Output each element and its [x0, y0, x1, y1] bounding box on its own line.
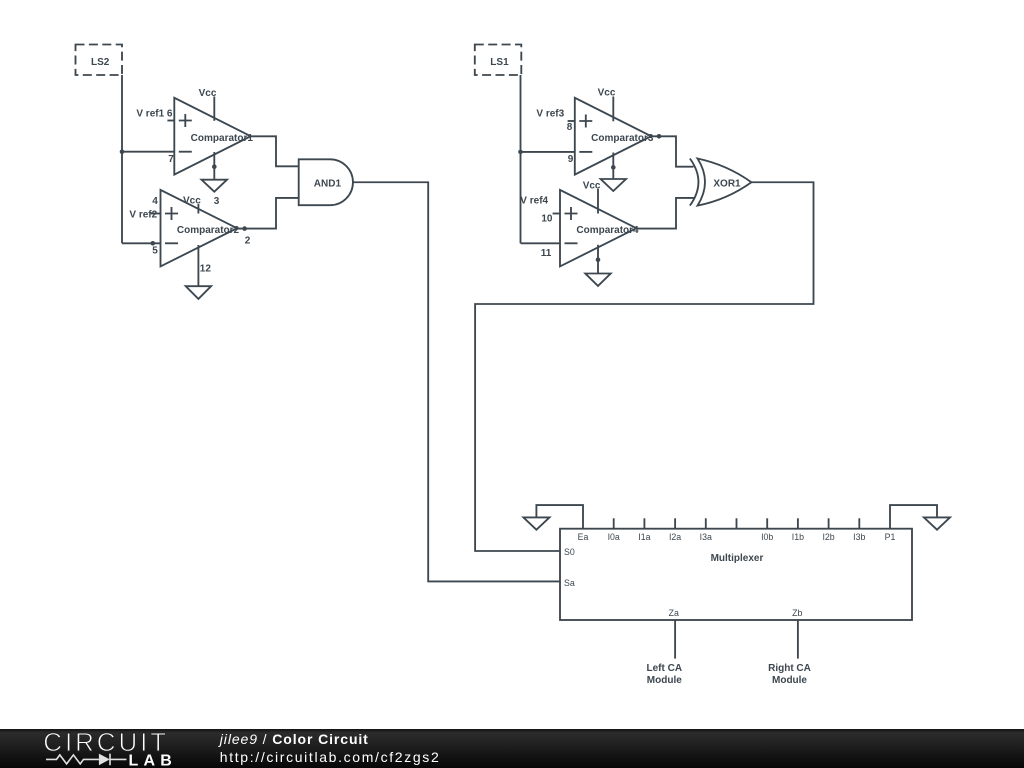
- pin stub I1a: [643, 518, 645, 528]
- ground below Comparator4: [585, 274, 610, 286]
- minus sign: [179, 151, 192, 153]
- pin stub I2a: [674, 518, 676, 528]
- svg-text:jilee9 / Color Circuit: jilee9 / Color Circuit: [218, 731, 369, 747]
- svg-text:P1: P1: [885, 532, 896, 542]
- pin stub I1b: [797, 518, 799, 528]
- wire to Comparator4 minus: [521, 242, 561, 244]
- node junction on LS2 bus: [120, 149, 125, 154]
- plus sign: [579, 115, 592, 128]
- negative supply stem Comparator4: [597, 245, 599, 274]
- ground below Comparator3: [601, 179, 626, 191]
- svg-text:Vcc: Vcc: [583, 180, 601, 191]
- node on Comparator2 output / net 2: [242, 226, 247, 231]
- module box LS2: [76, 45, 123, 76]
- Vcc supply stem Comparator4: [597, 189, 599, 214]
- pin stub I0a: [613, 518, 615, 528]
- Vcc supply stem Comparator3: [612, 97, 614, 122]
- negative supply stem Comparator1: [213, 152, 215, 180]
- svg-text:5: 5: [152, 245, 158, 256]
- svg-text:I2b: I2b: [822, 532, 834, 542]
- svg-text:Ea: Ea: [578, 532, 589, 542]
- svg-text:Comparator1: Comparator1: [191, 133, 254, 144]
- wire Comparator4 output to XOR1 bottom input: [636, 198, 695, 229]
- wire Za to Left CA Module: [674, 620, 676, 659]
- module box LS1: [475, 45, 522, 76]
- wire XOR1 output to Multiplexer S0: [475, 182, 813, 551]
- svg-text:8: 8: [567, 122, 573, 133]
- svg-text:Comparator2: Comparator2: [177, 225, 240, 236]
- svg-text:V ref1 6: V ref1 6: [136, 109, 173, 120]
- svg-text:V ref3: V ref3: [536, 108, 564, 119]
- svg-text:Comparator4: Comparator4: [576, 225, 639, 236]
- label Left CA Module: [647, 663, 683, 686]
- wire P1 to ground: [890, 505, 937, 529]
- svg-text:Left CA: Left CA: [647, 663, 683, 674]
- pin stub I3b: [858, 518, 860, 528]
- plus sign: [565, 207, 578, 220]
- svg-text:I0a: I0a: [608, 532, 620, 542]
- negative supply stem Comparator2: [197, 245, 199, 286]
- wire to Comparator3 minus: [521, 151, 575, 153]
- node on Comparator3 output: [657, 134, 662, 139]
- pin stub I0b: [766, 518, 768, 528]
- ground at Ea: [523, 517, 549, 529]
- wire Comparator3 output to XOR1 top input: [651, 136, 693, 166]
- svg-text:4: 4: [152, 196, 158, 207]
- ground below Comparator1: [202, 180, 228, 192]
- svg-text:LAB: LAB: [129, 752, 177, 768]
- svg-text:I3a: I3a: [700, 532, 712, 542]
- svg-text:XOR1: XOR1: [713, 178, 741, 189]
- pin stub I3a: [705, 518, 707, 528]
- svg-text:LS2: LS2: [91, 57, 110, 68]
- plus sign: [179, 114, 192, 127]
- op-amp U1 Comparator1: [167, 88, 253, 180]
- svg-text:I1a: I1a: [638, 532, 650, 542]
- svg-text:10: 10: [541, 213, 553, 224]
- minus sign: [579, 151, 592, 153]
- svg-text:3: 3: [214, 196, 220, 207]
- svg-text:Vcc: Vcc: [199, 88, 217, 99]
- wire to Comparator2 minus: [122, 242, 161, 244]
- svg-text:12: 12: [200, 263, 212, 274]
- svg-text:Comparator3: Comparator3: [591, 133, 654, 144]
- Vcc supply stem Comparator2: [197, 204, 199, 214]
- wire to Comparator1 minus: [122, 151, 174, 153]
- wire Comparator1 output to AND1 top input: [251, 136, 299, 166]
- minus sign: [565, 242, 578, 244]
- svg-text:Module: Module: [772, 675, 807, 686]
- svg-text:I1b: I1b: [792, 532, 804, 542]
- op-amp U3 Comparator3: [568, 87, 654, 179]
- plus input stub pin 8: [568, 120, 575, 122]
- Vcc supply stem Comparator1: [213, 97, 215, 121]
- plus sign: [165, 207, 178, 220]
- svg-text:11: 11: [541, 248, 552, 259]
- label Right CA Module: [768, 663, 811, 686]
- svg-text:V ref4: V ref4: [520, 196, 548, 207]
- svg-text:LS1: LS1: [490, 57, 509, 68]
- svg-text:Sa: Sa: [564, 578, 575, 588]
- wire Zb to Right CA Module: [797, 620, 799, 659]
- svg-text:7: 7: [168, 154, 174, 165]
- svg-text:I3b: I3b: [853, 532, 865, 542]
- op-amp U2 Comparator2: [151, 190, 240, 286]
- node on Comparator2 minus wire: [151, 241, 156, 246]
- svg-text:S0: S0: [564, 547, 575, 557]
- op-amp U4 Comparator4: [553, 180, 639, 273]
- node junction on LS1 bus: [518, 150, 523, 155]
- wire Ea to ground: [536, 505, 583, 529]
- AND gate AND1: [299, 159, 353, 205]
- svg-text:Vcc: Vcc: [598, 87, 616, 98]
- wire AND1 output to Multiplexer Sa: [353, 182, 560, 581]
- XOR gate XOR1: [690, 159, 752, 206]
- svg-text:Module: Module: [647, 675, 682, 686]
- plus input stub pin 10: [553, 213, 560, 215]
- svg-text:Right CA: Right CA: [768, 663, 811, 674]
- svg-text:I2a: I2a: [669, 532, 681, 542]
- svg-text:9: 9: [568, 154, 574, 165]
- wire LS2 vertical bus: [121, 75, 123, 243]
- multiplexer U5 body: [560, 529, 912, 620]
- minus sign: [165, 242, 178, 244]
- svg-text:AND1: AND1: [314, 179, 342, 190]
- ground below Comparator2: [186, 286, 211, 299]
- wire Comparator2 output to AND1 bottom input: [237, 198, 299, 229]
- svg-text:V ref2: V ref2: [129, 210, 157, 221]
- pin stub I2b: [828, 518, 830, 528]
- svg-text:Vcc: Vcc: [183, 196, 201, 207]
- plus input stub pin 4: [151, 213, 161, 215]
- plus input stub pin 6: [167, 120, 174, 122]
- svg-text:Zb: Zb: [792, 608, 802, 618]
- svg-text:Multiplexer: Multiplexer: [711, 553, 764, 564]
- pin stub unlabeled: [736, 518, 738, 528]
- svg-text:http://circuitlab.com/cf2zgs2: http://circuitlab.com/cf2zgs2: [220, 749, 441, 765]
- svg-text:2: 2: [245, 236, 251, 247]
- svg-text:I0b: I0b: [761, 532, 773, 542]
- ground at P1: [924, 517, 950, 529]
- negative supply stem Comparator3: [612, 153, 614, 180]
- svg-text:Za: Za: [669, 608, 679, 618]
- logo resistor and diode: [46, 754, 127, 766]
- wire LS1 vertical bus: [520, 75, 522, 243]
